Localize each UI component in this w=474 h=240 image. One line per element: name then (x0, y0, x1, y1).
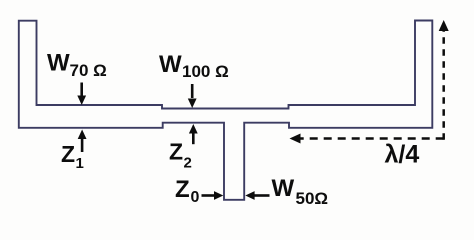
label W50 (272, 175, 329, 208)
svg-text:70 Ω: 70 Ω (70, 61, 107, 80)
dashed line vertical (lambda/4 path) (442, 30, 445, 140)
arrowhead left of dashed horizontal (290, 134, 301, 144)
svg-text:50Ω: 50Ω (296, 189, 329, 208)
svg-text:2: 2 (184, 155, 192, 172)
arrow right Z0 (202, 191, 224, 200)
svg-text:Z: Z (61, 141, 75, 167)
svg-text:W: W (159, 51, 182, 78)
svg-text:W: W (272, 175, 295, 202)
svg-text:100 Ω: 100 Ω (182, 62, 229, 81)
label Z2 (169, 139, 192, 172)
arrow left W50 (245, 191, 269, 200)
label W100 (159, 51, 229, 81)
svg-text:0: 0 (191, 189, 200, 206)
svg-text:λ/4: λ/4 (385, 141, 420, 169)
svg-text:W: W (47, 50, 70, 77)
dashed line horizontal (lambda/4 path) (298, 137, 444, 140)
label Z1 (61, 141, 84, 172)
svg-text:Z: Z (169, 139, 183, 165)
label W70 (47, 50, 107, 81)
microstrip trace outline (19, 21, 433, 200)
arrow up Z2 (189, 124, 198, 144)
label Z0 (175, 176, 200, 206)
arrow up Z1 (78, 130, 87, 153)
arrowhead up of dashed vertical (439, 20, 449, 31)
arrow down W100 (188, 84, 197, 108)
svg-text:1: 1 (76, 155, 84, 172)
svg-text:Z: Z (175, 176, 190, 203)
arrow down W70 (77, 83, 86, 106)
